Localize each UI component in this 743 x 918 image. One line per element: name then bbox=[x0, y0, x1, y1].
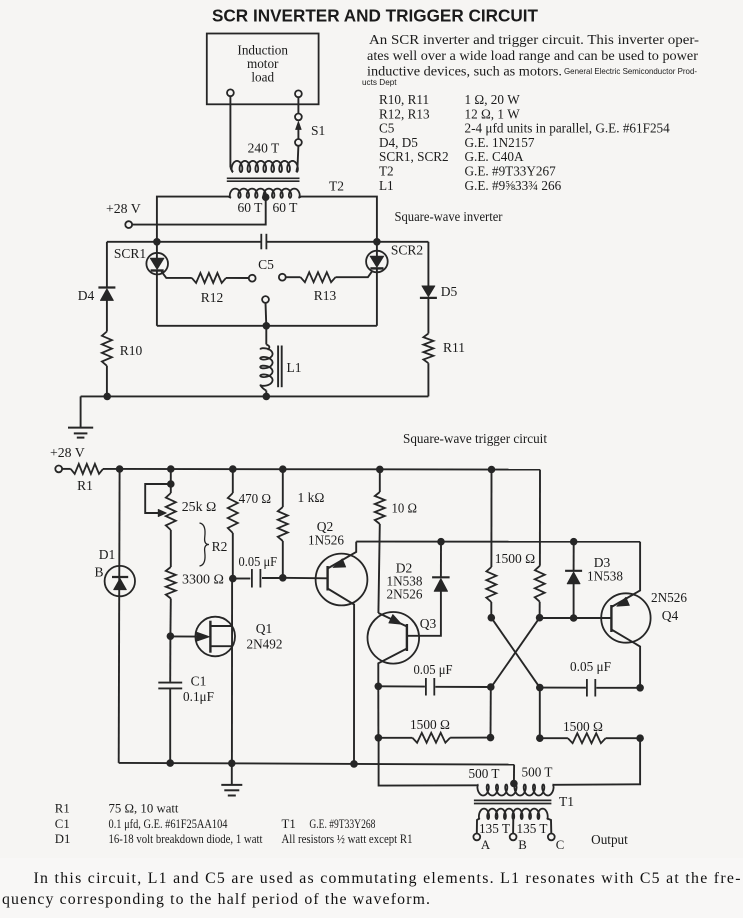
induction motor load box bbox=[207, 34, 319, 105]
node D3 top bbox=[570, 538, 578, 546]
capacitor 0.05uF (left coupling) bbox=[378, 685, 425, 687]
node Q1 emitter bbox=[167, 632, 175, 640]
svg-text:G.E. #9⅝33¾ 266: G.E. #9⅝33¾ 266 bbox=[465, 178, 562, 193]
svg-text:0.05 μF: 0.05 μF bbox=[414, 662, 453, 677]
resistor 1500 ohm (left vertical) bbox=[490, 470, 492, 568]
node Q4 emitter/cap right bbox=[636, 684, 644, 692]
svg-text:R12, R13: R12, R13 bbox=[379, 106, 430, 121]
node 470/cap/Q1-B2 bbox=[229, 575, 237, 583]
resistor R12 bbox=[192, 273, 226, 283]
node wiper tie bbox=[167, 480, 175, 488]
svg-text:Square-wave inverter: Square-wave inverter bbox=[395, 209, 504, 224]
transistor Q2 bbox=[316, 554, 368, 606]
svg-text:G.E. #9T33Y268: G.E. #9T33Y268 bbox=[309, 817, 375, 831]
wire Q4 base bbox=[540, 617, 612, 619]
wire T2 secondary right lead bbox=[299, 197, 377, 242]
SCR2 bbox=[376, 242, 378, 256]
svg-text:R2: R2 bbox=[212, 539, 228, 554]
svg-text:60 T: 60 T bbox=[273, 200, 299, 215]
node cap right / X bbox=[536, 684, 544, 692]
svg-text:Q1: Q1 bbox=[256, 621, 273, 636]
SCR1 gate wire bbox=[161, 271, 191, 278]
svg-text:C: C bbox=[556, 838, 565, 852]
node 1500L left bbox=[375, 734, 383, 742]
transformer T1 primary 500T/500T bbox=[477, 785, 553, 796]
capacitor C1 bbox=[169, 636, 171, 682]
svg-text:D5: D5 bbox=[441, 284, 458, 299]
terminal B (R13) bbox=[279, 274, 286, 281]
unijunction transistor Q1 bbox=[195, 617, 235, 657]
capacitor C5 bbox=[260, 234, 262, 250]
transformer T2 primary 240T bbox=[232, 161, 298, 172]
svg-text:+28 V: +28 V bbox=[50, 445, 85, 460]
node C1 bottom bbox=[166, 759, 174, 767]
svg-text:2N526: 2N526 bbox=[387, 587, 423, 602]
SCR1 bbox=[156, 242, 158, 259]
svg-text:G.E. #9T33Y267: G.E. #9T33Y267 bbox=[465, 164, 557, 179]
node T2 center tap bbox=[262, 193, 270, 201]
L1 core bbox=[277, 346, 279, 388]
svg-text:470 Ω: 470 Ω bbox=[239, 491, 272, 506]
svg-text:D1: D1 bbox=[55, 832, 71, 846]
svg-text:R1: R1 bbox=[77, 478, 93, 493]
transformer T1 secondary 135T/135T bbox=[479, 809, 548, 819]
svg-text:1500 Ω: 1500 Ω bbox=[563, 719, 603, 734]
svg-text:1 Ω, 20 W: 1 Ω, 20 W bbox=[465, 92, 521, 107]
svg-text:An SCR inverter and trigger ci: An SCR inverter and trigger circuit. Thi… bbox=[369, 32, 699, 47]
terminal A (R12) bbox=[249, 275, 256, 282]
cross-coupling wires bbox=[491, 618, 540, 688]
svg-text:0.05 μF: 0.05 μF bbox=[570, 659, 611, 674]
svg-text:S1: S1 bbox=[311, 123, 325, 138]
svg-text:1 kΩ: 1 kΩ bbox=[298, 490, 325, 505]
svg-text:+28 V: +28 V bbox=[106, 201, 141, 216]
svg-text:R11: R11 bbox=[443, 340, 465, 355]
wire S1 to T2 primary bbox=[297, 146, 300, 167]
wire Q2 collector bus (y=541.6) bbox=[356, 541, 640, 543]
svg-text:10 Ω: 10 Ω bbox=[392, 501, 418, 516]
svg-text:Q3: Q3 bbox=[420, 616, 437, 631]
svg-text:R10, R11: R10, R11 bbox=[379, 92, 429, 107]
svg-text:0.1μF: 0.1μF bbox=[183, 689, 214, 704]
transformer T2 secondary 60T/60T bbox=[230, 189, 300, 198]
svg-text:D1: D1 bbox=[99, 547, 116, 562]
svg-text:2-4 μfd units in parallel, G.E: 2-4 μfd units in parallel, G.E. #61F254 bbox=[465, 121, 671, 136]
node 470ohm top bbox=[229, 465, 237, 473]
diode D3 bbox=[573, 542, 575, 571]
svg-text:G.E. C40A: G.E. C40A bbox=[465, 149, 524, 164]
svg-text:0.05 μF: 0.05 μF bbox=[239, 554, 278, 569]
svg-text:60 T: 60 T bbox=[238, 200, 264, 215]
svg-text:L1: L1 bbox=[379, 178, 394, 193]
svg-text:T2: T2 bbox=[329, 179, 344, 194]
svg-text:T1: T1 bbox=[282, 817, 296, 831]
wire +28V to T2 center tap bbox=[132, 197, 266, 224]
svg-text:In this circuit, L1 and C5 are: In this circuit, L1 and C5 are used as c… bbox=[34, 870, 741, 887]
T1 core bbox=[474, 799, 552, 801]
wire inverter bottom rail bbox=[81, 395, 429, 397]
terminal C (center) bbox=[262, 296, 269, 303]
T2 core bbox=[227, 177, 300, 179]
node 1500L right bbox=[487, 734, 495, 742]
pot wiper bbox=[145, 484, 171, 513]
resistor 1500 ohm (left horizontal) bbox=[377, 686, 379, 738]
svg-text:C5: C5 bbox=[258, 257, 274, 272]
node SCR1 anode bbox=[153, 238, 161, 246]
node L1 top bbox=[263, 322, 271, 330]
svg-text:R12: R12 bbox=[201, 290, 224, 305]
diode D2 bbox=[440, 542, 442, 578]
svg-text:1500 Ω: 1500 Ω bbox=[410, 717, 450, 732]
svg-text:0.1 μfd, G.E. #61F25AA104: 0.1 μfd, G.E. #61F25AA104 bbox=[109, 817, 228, 831]
svg-text:1N526: 1N526 bbox=[308, 533, 344, 548]
svg-text:ates well over a wide load ran: ates well over a wide load range and can… bbox=[367, 48, 698, 63]
wire trigger bottom rail bbox=[119, 763, 514, 765]
load terminal right bbox=[295, 90, 302, 97]
resistor 10 ohm bbox=[379, 469, 381, 492]
wire rail to T1 center tap bbox=[513, 765, 515, 783]
potentiometer 25k (R2 upper) bbox=[170, 469, 172, 493]
wire secondary leads bbox=[477, 818, 480, 833]
SCR2 gate wire bbox=[336, 271, 373, 278]
breakdown diode D1 bbox=[118, 469, 121, 763]
transistor Q4 bbox=[601, 593, 650, 642]
resistor 1500 ohm (right horizontal) bbox=[540, 688, 568, 739]
svg-text:SCR2: SCR2 bbox=[391, 243, 423, 258]
node D2 top bbox=[437, 538, 445, 546]
svg-text:SCR1, SCR2: SCR1, SCR2 bbox=[379, 149, 449, 164]
ground (trigger) bbox=[231, 763, 233, 785]
svg-text:SCR1: SCR1 bbox=[114, 246, 146, 261]
svg-text:500 T: 500 T bbox=[469, 766, 500, 781]
svg-text:T2: T2 bbox=[379, 164, 394, 179]
node T1 center tap bbox=[510, 780, 518, 788]
svg-text:All resistors ½ watt except R1: All resistors ½ watt except R1 bbox=[282, 832, 413, 846]
svg-text:25k Ω: 25k Ω bbox=[182, 499, 217, 514]
node 1500R left bbox=[536, 734, 544, 742]
output terminal B bbox=[510, 834, 517, 841]
node cap left / X bbox=[487, 683, 495, 691]
svg-text:D4, D5: D4, D5 bbox=[379, 135, 418, 150]
capacitor 0.05uF (right coupling) bbox=[540, 687, 586, 689]
svg-text:ucts Dept: ucts Dept bbox=[362, 78, 397, 87]
switch S1 bbox=[297, 97, 299, 114]
node Q2 base bbox=[279, 574, 287, 582]
svg-text:A: A bbox=[481, 838, 491, 852]
svg-text:135 T: 135 T bbox=[479, 821, 510, 836]
wire T2 secondary left lead bbox=[157, 197, 231, 242]
node SCR2 anode bbox=[373, 238, 381, 246]
svg-text:240 T: 240 T bbox=[248, 141, 280, 156]
resistor R10 bbox=[102, 332, 112, 366]
svg-text:12 Ω, 1 W: 12 Ω, 1 W bbox=[465, 106, 521, 121]
load terminal left bbox=[227, 89, 234, 96]
node R10 bottom bbox=[103, 393, 111, 401]
wire load-left to T2 primary bbox=[229, 96, 231, 167]
output terminal C bbox=[548, 834, 555, 841]
resistor 3300 ohm (R2 lower) bbox=[166, 567, 176, 599]
node 1k top bbox=[279, 465, 287, 473]
resistor R13 bbox=[286, 276, 301, 278]
node flipflop right bbox=[536, 614, 544, 622]
resistor R1 bbox=[62, 468, 71, 470]
transistor Q3 bbox=[368, 612, 420, 664]
svg-text:135 T: 135 T bbox=[517, 821, 548, 836]
svg-text:L1: L1 bbox=[287, 360, 302, 375]
svg-text:R10: R10 bbox=[120, 343, 143, 358]
resistor 1k ohm bbox=[282, 469, 284, 507]
wire center terminal to rail bbox=[265, 303, 268, 326]
svg-text:General Electric Semiconductor: General Electric Semiconductor Prod- bbox=[564, 67, 697, 76]
svg-text:75 Ω, 10 watt: 75 Ω, 10 watt bbox=[109, 802, 179, 816]
svg-text:G.E. 1N2157: G.E. 1N2157 bbox=[465, 135, 535, 150]
svg-text:Square-wave trigger circuit: Square-wave trigger circuit bbox=[403, 431, 547, 446]
svg-text:C1: C1 bbox=[55, 817, 70, 831]
svg-text:500 T: 500 T bbox=[522, 765, 553, 780]
node D1 top bbox=[116, 465, 124, 473]
node T1 right lead bbox=[636, 734, 644, 742]
svg-text:quency corresponding to the ha: quency corresponding to the half period … bbox=[2, 891, 430, 908]
resistor 1500 ohm (right vertical) bbox=[539, 470, 541, 566]
svg-text:load: load bbox=[251, 70, 274, 85]
wire +28V top rail bbox=[103, 468, 540, 471]
svg-text:D4: D4 bbox=[78, 288, 95, 303]
svg-text:2N526: 2N526 bbox=[651, 590, 687, 605]
ground (inverter) bbox=[80, 396, 82, 427]
resistor R11 bbox=[423, 334, 433, 364]
svg-text:1N538: 1N538 bbox=[587, 569, 623, 584]
node 10ohm top bbox=[376, 466, 384, 474]
inductor L1 bbox=[265, 326, 267, 345]
svg-text:R13: R13 bbox=[314, 288, 337, 303]
wire top rail (anode bus) bbox=[107, 241, 261, 243]
svg-text:3300 Ω: 3300 Ω bbox=[182, 572, 224, 587]
svg-text:T1: T1 bbox=[559, 794, 574, 809]
svg-text:2N492: 2N492 bbox=[247, 637, 283, 652]
svg-text:SCR INVERTER AND TRIGGER CIRCU: SCR INVERTER AND TRIGGER CIRCUIT bbox=[212, 6, 538, 26]
node Q3 emitter/cap left bbox=[375, 683, 383, 691]
output terminal A bbox=[473, 834, 480, 841]
svg-text:16-18 volt breakdown diode, 1: 16-18 volt breakdown diode, 1 watt bbox=[109, 832, 263, 846]
node flipflop left bbox=[488, 614, 496, 622]
svg-text:1500 Ω: 1500 Ω bbox=[495, 551, 536, 566]
wire inner cathode rail bbox=[157, 325, 377, 327]
svg-text:B: B bbox=[518, 838, 527, 852]
node Q2 emitter bottom bbox=[350, 760, 358, 768]
capacitor 0.05uF (Q2 base) bbox=[236, 578, 250, 580]
svg-text:Q4: Q4 bbox=[662, 608, 679, 623]
node R2 top bbox=[167, 465, 175, 473]
R2 brace bbox=[200, 523, 210, 566]
svg-text:Output: Output bbox=[591, 832, 628, 847]
node D3 bottom bbox=[570, 614, 578, 622]
svg-text:B: B bbox=[94, 565, 103, 580]
svg-text:R1: R1 bbox=[55, 802, 70, 816]
svg-text:C5: C5 bbox=[379, 121, 395, 136]
node L1 bottom bbox=[263, 393, 271, 401]
diode D5 bbox=[427, 242, 429, 286]
wire to Q2 base bbox=[283, 577, 328, 580]
diode D4 bbox=[106, 242, 108, 288]
node 1500ohm-left top bbox=[488, 466, 496, 474]
svg-text:inductive devices, such as mot: inductive devices, such as motors. bbox=[367, 64, 562, 79]
resistor 470 ohm bbox=[232, 469, 234, 493]
svg-text:C1: C1 bbox=[191, 674, 207, 689]
node Q1 B1 / ground bbox=[228, 760, 236, 768]
